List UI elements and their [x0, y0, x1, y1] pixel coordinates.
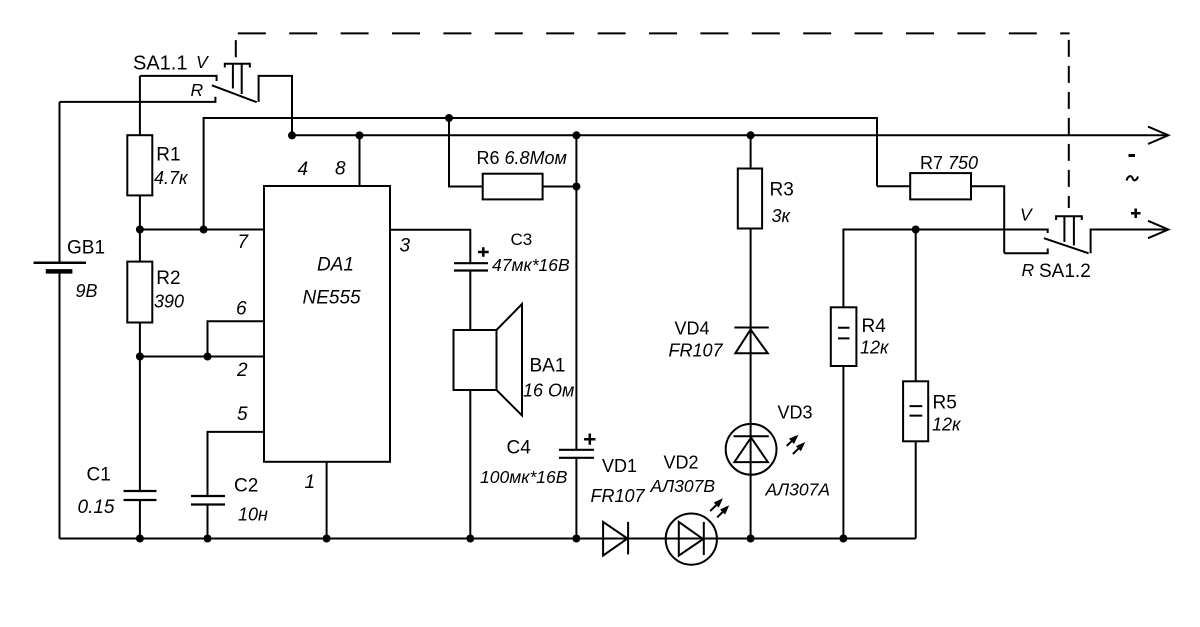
wire pin 8: [359, 135, 361, 186]
svg-text:АЛ307В: АЛ307В: [650, 476, 716, 496]
capacitor C4: [480, 434, 596, 539]
SA1.1 output wire: [259, 76, 292, 136]
SA1.2 movable arm: [1044, 238, 1089, 253]
resistor R1: [127, 76, 189, 230]
node R6 right: [572, 183, 580, 191]
svg-text:100мк*16В: 100мк*16В: [480, 467, 568, 487]
svg-text:4.7к: 4.7к: [154, 168, 189, 188]
svg-text:2: 2: [236, 360, 248, 381]
svg-text:12к: 12к: [860, 338, 890, 358]
wire pin 1: [326, 462, 328, 539]
speaker BA1: [454, 304, 575, 539]
label plus terminal: [1131, 209, 1141, 219]
svg-text:8: 8: [335, 159, 346, 180]
wire SA1.1 V rail to R1: [139, 76, 141, 135]
svg-text:R1: R1: [156, 144, 180, 165]
op-amp / IC DA1 NE555: [264, 159, 411, 494]
battery GB1: [34, 102, 105, 539]
svg-text:АЛ307А: АЛ307А: [765, 480, 831, 500]
svg-text:C2: C2: [234, 476, 258, 497]
mechanical link dashed line (vertical right): [1068, 40, 1070, 208]
node C2 bottom: [204, 535, 212, 543]
label tilde terminal: [1127, 176, 1139, 180]
node C4 bottom: [572, 535, 580, 543]
arrowhead minus output: [1148, 127, 1168, 144]
SA1.2 button actuator: [1056, 216, 1082, 245]
resistor R7: [877, 153, 1004, 253]
VD3 emission arrow 1: [787, 435, 799, 446]
node pin7/upper rail: [200, 226, 208, 234]
wire R1 to node: [139, 195, 141, 229]
switch SA1.2: [1004, 205, 1168, 283]
node R2/C1: [136, 353, 144, 361]
wire R6 to node: [543, 186, 577, 188]
wire C3 to speaker: [469, 271, 471, 331]
label minus terminal: [1129, 154, 1136, 157]
svg-text:VD4: VD4: [675, 319, 710, 339]
wire pin 5: [208, 432, 265, 496]
SA1.2 contact R rail: [1004, 249, 1047, 254]
svg-text:FR107: FR107: [591, 486, 646, 506]
svg-text:R: R: [191, 80, 204, 100]
svg-text:VD1: VD1: [602, 456, 637, 476]
svg-text:0.15: 0.15: [78, 497, 115, 518]
wire VD3 to bottom rail: [750, 424, 752, 539]
plus sign C3: [478, 247, 489, 256]
VD2 emission arrow 2: [717, 505, 729, 517]
svg-text:R2: R2: [156, 268, 180, 289]
R5 power marks: [910, 406, 923, 416]
svg-text:R7 750: R7 750: [920, 153, 978, 173]
node R3 on lower rail: [747, 131, 755, 139]
node R6 left on upper rail: [445, 114, 453, 122]
node C4 column on lower rail: [572, 131, 580, 139]
GB1 long plate: [34, 261, 86, 264]
wire R7 to SA1.2 R contact: [971, 186, 1004, 253]
SA1.1 contact R rail: [60, 97, 216, 102]
speaker horn: [497, 304, 523, 416]
wire R2 to node: [139, 323, 141, 357]
svg-text:12к: 12к: [932, 415, 962, 435]
resistor R5: [903, 230, 962, 539]
wire C4 to bottom rail: [575, 458, 577, 539]
wire pin 6: [208, 321, 265, 356]
resistor R2: [127, 230, 184, 357]
node speaker bottom: [466, 535, 474, 543]
wire: lower rail (to minus arrow): [292, 134, 1167, 136]
SA1.1 button actuator: [225, 64, 250, 94]
SA1.1 movable arm: [212, 85, 257, 102]
resistor R4: [831, 307, 890, 538]
wire lower rail to R3: [750, 135, 752, 168]
node pin1 bottom: [323, 535, 331, 543]
diode VD1: [591, 456, 646, 556]
wire C4 column: [575, 135, 577, 450]
svg-text:16 Ом: 16 Ом: [523, 381, 574, 401]
svg-text:47мк*16В: 47мк*16В: [492, 255, 570, 275]
LED VD3: [726, 403, 830, 539]
svg-text:NE555: NE555: [303, 288, 362, 309]
wire R4 top row: [843, 230, 1047, 308]
svg-text:DA1: DA1: [317, 255, 354, 276]
svg-text:C4: C4: [507, 438, 532, 459]
svg-text:3к: 3к: [772, 206, 792, 226]
SA1.1 contact V rail: [140, 76, 217, 81]
node pin4 rail: [288, 131, 296, 139]
svg-text:5: 5: [237, 404, 248, 425]
wire R4 to bottom rail: [842, 366, 844, 539]
svg-text:GB1: GB1: [67, 238, 105, 259]
svg-text:R3: R3: [770, 180, 794, 201]
wire VD4 to VD3: [750, 328, 752, 425]
node R1/R2: [136, 226, 144, 234]
wire to R7: [877, 185, 910, 187]
wire C1 to bottom rail: [139, 500, 141, 539]
svg-text:FR107: FR107: [669, 341, 724, 361]
svg-text:R: R: [1022, 260, 1035, 280]
bottom rail: [60, 538, 916, 540]
resistor R6: [445, 114, 580, 199]
svg-text:R4: R4: [862, 316, 887, 337]
node VD3 bottom: [747, 535, 755, 543]
node pin6 drop: [204, 353, 212, 361]
svg-text:1: 1: [305, 472, 316, 493]
diode VD4: [669, 319, 769, 425]
svg-text:VD2: VD2: [664, 453, 699, 473]
wire: upper rail to R7: [204, 118, 877, 230]
plus sign C4: [584, 434, 595, 445]
node C1 bottom: [136, 535, 144, 543]
svg-text:R6 6.8Мом: R6 6.8Мом: [477, 148, 567, 168]
node R5 top: [912, 226, 920, 234]
mechanical link dashed line (horizontal): [238, 32, 1070, 34]
svg-text:9В: 9В: [76, 281, 98, 301]
wire pin 7 row: [140, 229, 264, 231]
wire node to R5: [915, 230, 917, 382]
wire R3 down to VD4: [750, 229, 752, 328]
wire pin 3: [390, 230, 470, 264]
VD3 emission arrow 2: [793, 442, 805, 454]
svg-text:10н: 10н: [238, 505, 268, 525]
svg-text:SA1.2: SA1.2: [1039, 261, 1091, 282]
arrowhead plus output: [1148, 221, 1168, 238]
capacitor C1: [78, 357, 157, 539]
wire speaker to bottom rail: [469, 390, 471, 539]
R4 power marks: [838, 328, 850, 339]
svg-text:3: 3: [400, 236, 411, 257]
wire node to R2: [139, 230, 141, 262]
svg-text:C1: C1: [87, 465, 111, 486]
node pin8 rail: [356, 131, 364, 139]
VD2 emission arrow 1: [710, 498, 723, 511]
wire upper rail to R6: [449, 118, 483, 187]
svg-text:7: 7: [238, 232, 250, 253]
wire from SA1.1 R rail down: [59, 102, 61, 262]
mechanical link dash above SA1.1 button: [235, 40, 237, 57]
wire C2 to bottom rail: [207, 505, 209, 539]
wire R5 to bottom rail: [915, 441, 917, 538]
wire node to C1: [139, 357, 141, 492]
svg-text:4: 4: [298, 159, 309, 180]
capacitor C3: [454, 230, 570, 330]
resistor R3: [738, 131, 794, 327]
switch SA1.1: [60, 52, 293, 136]
SA1.2 output wire: [1091, 230, 1167, 254]
wire below battery: [59, 273, 61, 539]
svg-text:VD3: VD3: [778, 403, 813, 423]
svg-text:6: 6: [236, 299, 247, 320]
svg-text:SA1.1: SA1.1: [133, 53, 187, 75]
LED VD2: [650, 453, 730, 565]
wire pin 2 row: [140, 356, 264, 358]
GB1 short plate: [46, 269, 73, 274]
svg-text:390: 390: [154, 292, 184, 312]
svg-text:C3: C3: [511, 230, 533, 249]
svg-text:R5: R5: [933, 393, 957, 414]
svg-text:BA1: BA1: [530, 356, 566, 377]
node R4 bottom: [839, 535, 847, 543]
capacitor C2: [191, 476, 268, 539]
